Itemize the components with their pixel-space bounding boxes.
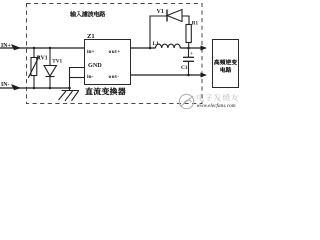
wire diode to R1	[182, 16, 189, 25]
diode V1	[166, 10, 168, 22]
svg-text:L1: L1	[153, 41, 160, 47]
wire riser to freewheel diode	[150, 16, 167, 48]
output stage box	[213, 40, 239, 88]
svg-text:Z1: Z1	[87, 33, 95, 40]
TVS diode TV1	[44, 48, 57, 88]
label 直流变换器	[85, 87, 125, 95]
svg-text:out-: out-	[109, 74, 120, 80]
converter module Z1 box	[85, 40, 131, 85]
svg-text:RV1: RV1	[37, 56, 48, 62]
resistor R1	[186, 25, 191, 43]
junction C1 bottom on out- rail	[187, 74, 190, 77]
svg-text:IN-: IN-	[1, 82, 9, 88]
arrow to output box top	[201, 46, 208, 51]
svg-text:TV1: TV1	[52, 58, 62, 64]
wire GND stub	[70, 68, 85, 91]
svg-text:+: +	[190, 52, 194, 58]
svg-text:C1: C1	[181, 65, 188, 71]
wire after L1	[180, 47, 201, 49]
svg-text:GND: GND	[88, 62, 102, 69]
junction ground branch on IN- rail	[68, 87, 71, 90]
arrow to output box bottom	[201, 73, 208, 78]
arrow IN-	[11, 84, 21, 90]
wire out+ rail	[130, 47, 156, 49]
label 输入滤波电路	[70, 11, 105, 17]
wire out- rail	[130, 74, 201, 76]
junction RV1 top on IN+ rail	[33, 47, 36, 50]
svg-text:R1: R1	[192, 20, 199, 26]
watermark logo circle	[179, 94, 193, 108]
ground symbol	[59, 91, 80, 101]
label 高频逆变电路	[214, 59, 237, 64]
svg-text:in+: in+	[87, 49, 95, 55]
inductor L1	[156, 44, 181, 48]
varistor RV1	[28, 48, 39, 88]
watermark 电子发烧友	[197, 94, 238, 101]
svg-text:out+: out+	[109, 49, 121, 55]
wire in- stub	[70, 77, 85, 79]
junction riser on out+ rail	[149, 47, 152, 50]
wire IN+ rail	[0, 47, 84, 49]
wire IN- rail	[0, 87, 70, 89]
dashed enclosure box	[27, 4, 203, 104]
arrow IN+	[11, 44, 21, 50]
svg-text:www.elecfans.com: www.elecfans.com	[197, 102, 236, 109]
junction R1 bottom on out+ rail	[187, 47, 190, 50]
junction TV1 bottom on IN- rail	[49, 87, 52, 90]
junction RV1 bottom on IN- rail	[33, 87, 36, 90]
svg-text:in-: in-	[87, 74, 93, 80]
capacitor C1	[188, 48, 190, 57]
svg-text:V1: V1	[157, 9, 164, 15]
junction TV1 top on IN+ rail	[49, 47, 52, 50]
